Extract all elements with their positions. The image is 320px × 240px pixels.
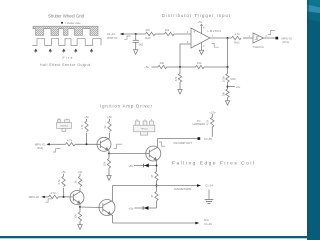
shutter wheel grid bar [33, 26, 98, 35]
svg-text:TIP102: TIP102 [141, 129, 149, 131]
IGN RETURN wire [113, 185, 198, 187]
svg-text:+5v: +5v [107, 115, 112, 119]
squarewave glyph at op-amp output [212, 44, 219, 48]
Q1 emitter wire [108, 151, 110, 154]
+12v harness resistor [206, 110, 216, 136]
wire [45, 196, 49, 198]
svg-text:Distributor Trigger Input: Distributor Trigger Input [162, 13, 231, 18]
op-amp U1 LM2904 [191, 28, 221, 48]
svg-text:.001: .001 [138, 42, 144, 46]
svg-text:C1-25: C1-25 [204, 137, 212, 141]
svg-text:+5v: +5v [61, 170, 66, 174]
Q4 collector wire up [112, 186, 114, 201]
output wire / pin 2 [264, 34, 276, 38]
junction at output [227, 37, 229, 39]
svg-text:+5v: +5v [197, 20, 202, 24]
wire [167, 66, 196, 68]
svg-text:8: 8 [203, 25, 205, 29]
wire output node down [227, 38, 229, 67]
chassis ground under C1-24 [205, 190, 214, 204]
resistor RA1 47k [145, 28, 155, 40]
svg-text:+12v: +12v [209, 110, 216, 114]
svg-text:4.7k: 4.7k [67, 139, 73, 143]
ground [134, 50, 138, 55]
op-amp output wire / pin 1 [210, 33, 232, 38]
svg-text:RA1: RA1 [145, 36, 151, 40]
junction [156, 165, 158, 167]
Q2 emitter wire down [156, 160, 158, 171]
svg-text:10k: 10k [103, 161, 107, 166]
wire bias line [152, 66, 159, 68]
svg-text:(IC1): (IC1) [283, 40, 289, 44]
+5v pullup C [57, 170, 67, 197]
junction [63, 196, 65, 198]
wire DIST IN to node [124, 33, 146, 35]
svg-text:4: 4 [203, 44, 205, 48]
+5v clamp diode (bottom) [129, 206, 157, 210]
wire to Q1 base [75, 143, 100, 145]
junction [135, 33, 137, 35]
svg-text:+5v: +5v [128, 164, 133, 168]
junction [108, 153, 110, 155]
package drawing TO-220 [134, 119, 155, 135]
resistor 10k to ground [221, 89, 229, 101]
wire to schmitt [243, 37, 253, 39]
svg-text:10k: 10k [221, 91, 225, 96]
ground [178, 90, 182, 95]
svg-text:10k: 10k [197, 61, 202, 65]
pin 2 / feedback wire [180, 40, 191, 67]
junction feedback node [179, 66, 181, 68]
legend marker [61, 22, 81, 25]
svg-text:+5v: +5v [129, 206, 134, 210]
Q3 emitter wire [79, 204, 81, 207]
slide sidebar [307, 0, 320, 240]
squarewave glyph at schmitt output [268, 30, 275, 34]
wire Q3 emitter to Q4 base [80, 206, 103, 209]
wire Q1 emitter to Q2 base [109, 153, 149, 155]
pad C1-24 [197, 184, 213, 188]
junction [86, 143, 88, 145]
wire to Q3 base [58, 196, 73, 198]
svg-text:+5v: +5v [78, 170, 83, 174]
svg-text:Ignition Amp Driver: Ignition Amp Driver [100, 104, 153, 109]
Q2 collector wire up [157, 139, 159, 147]
svg-text:47: 47 [150, 174, 154, 178]
pad C1-26 N/C [195, 218, 212, 226]
slide footer line [0, 236, 309, 238]
svg-text:LM2904: LM2904 [208, 29, 222, 33]
svg-text:C1-24: C1-24 [205, 184, 213, 188]
svg-text:IGN RETURN: IGN RETURN [174, 187, 191, 191]
svg-text:2N3904: 2N3904 [60, 126, 68, 128]
hall sensor waveform [32, 39, 101, 46]
ground [225, 101, 229, 106]
resistor R20 100k [221, 67, 236, 89]
+5v pullup A [80, 115, 90, 144]
svg-text:74HC14: 74HC14 [252, 45, 263, 49]
op-amp ground pin 4 [199, 43, 205, 55]
pad C1-25 [198, 137, 213, 141]
svg-text:1k: 1k [73, 180, 77, 184]
transistor Q2 [146, 146, 161, 161]
pad MPU-IO (IC4) [35, 142, 50, 149]
wire [155, 33, 164, 35]
pad MPU-IO (IC5) [29, 195, 45, 199]
wire [204, 66, 227, 68]
svg-text:47k: 47k [145, 28, 150, 32]
transistor Q1 [97, 137, 111, 151]
resistor 4.7k [49, 191, 59, 198]
+5v pullup D [73, 170, 83, 191]
fire arrows [34, 49, 93, 53]
squarewave glyph at DIST IN [124, 36, 130, 39]
+5v clamp diode (top) [128, 164, 156, 168]
junction / +5v stub [227, 85, 241, 89]
transistor Q4 [99, 200, 115, 216]
resistor 10k to ground [103, 154, 111, 176]
squarewave glyph [45, 199, 51, 202]
wire [50, 143, 66, 145]
svg-text:+5v: +5v [236, 85, 241, 89]
svg-text:Shutter Wheel Grid: Shutter Wheel Grid [48, 14, 85, 19]
svg-text:Fire: Fire [63, 56, 73, 60]
schmitt inverter U2 74HC14 [252, 33, 263, 49]
resistor 47k to ground [174, 67, 182, 90]
resistor 10k to ground [74, 207, 82, 225]
svg-text:4.7k: 4.7k [234, 32, 240, 36]
squarewave glyph [53, 149, 60, 152]
squarewave glyph [159, 142, 166, 146]
svg-text:4.7k: 4.7k [50, 191, 56, 195]
svg-text:+: + [193, 30, 196, 35]
junction on IGN RETURN wire [156, 185, 158, 187]
package drawing TO-92 [57, 118, 72, 131]
svg-text:DIST IN: DIST IN [107, 36, 117, 40]
svg-text:RA2: RA2 [234, 40, 240, 44]
svg-text:10k: 10k [165, 28, 170, 32]
svg-text:+5v: +5v [144, 65, 149, 69]
capacitor .001 [133, 34, 139, 50]
ground [78, 225, 83, 230]
transistor Q3 [70, 191, 84, 205]
resistor 47 [150, 172, 158, 192]
svg-text:Falling Edge Fires Coil: Falling Edge Fires Coil [172, 161, 254, 167]
svg-text:47k: 47k [174, 76, 178, 81]
svg-text:1: 1 [212, 33, 214, 37]
svg-text:10k: 10k [160, 61, 165, 65]
svg-text:HARNESS: HARNESS [193, 122, 206, 126]
svg-text:100k: 100k [221, 75, 225, 82]
svg-text:2: 2 [187, 40, 189, 44]
resistor 47 [150, 192, 158, 209]
label TO HARNESS [193, 119, 206, 126]
svg-text:1: 1 [249, 34, 251, 38]
svg-text:= shutter vane: = shutter vane [65, 22, 82, 25]
svg-text:10k: 10k [74, 214, 78, 219]
svg-text:4.7k: 4.7k [80, 124, 84, 130]
svg-text:4.7k: 4.7k [206, 119, 210, 125]
svg-text:Hall Effect Sensor Output: Hall Effect Sensor Output [40, 63, 90, 67]
squarewave glyph [114, 144, 123, 148]
svg-text:2: 2 [266, 34, 268, 38]
svg-text:IGN AMP OUT: IGN AMP OUT [174, 141, 193, 145]
Q4 emitter wire down [112, 215, 114, 223]
svg-text:4.7k: 4.7k [57, 179, 61, 185]
svg-text:(IC4): (IC4) [37, 146, 43, 150]
resistor 10k (bias) [158, 61, 167, 69]
svg-text:C1-26: C1-26 [204, 222, 212, 226]
svg-text:MPU-IO: MPU-IO [29, 195, 40, 199]
pad C1-23 DIST IN [107, 32, 124, 40]
pad MPU-IO (IC1) [276, 36, 293, 44]
resistor 10k (to output node) [196, 61, 205, 69]
resistor 4.7k [66, 139, 76, 147]
+5v to op-amp pin 8 [197, 20, 205, 34]
junction [79, 206, 81, 208]
svg-text:3: 3 [187, 30, 189, 34]
resistor RA2 4.7k [232, 32, 242, 44]
svg-text:R20: R20 [231, 77, 237, 81]
svg-text:47: 47 [150, 194, 154, 198]
+5v pullup B [103, 115, 113, 138]
N/C wire [113, 222, 196, 224]
IGN AMP OUT wire [158, 138, 198, 140]
junction [227, 66, 229, 68]
svg-text:+5v: +5v [84, 115, 89, 119]
svg-text:1k: 1k [103, 125, 107, 129]
ground [107, 176, 111, 181]
resistor 10k [165, 28, 175, 36]
wire to op-amp [174, 33, 191, 35]
